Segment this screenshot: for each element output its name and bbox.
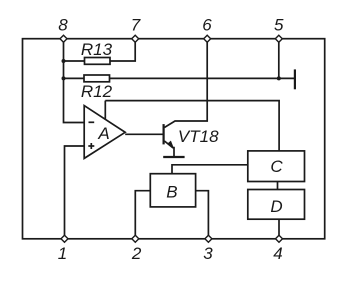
- svg-text:7: 7: [131, 16, 141, 35]
- terminal bar (capacitor connection): [294, 69, 296, 89]
- svg-text:D: D: [270, 197, 282, 216]
- op-amp A triangle: [84, 106, 125, 159]
- wire R13 right lead to pin 7: [110, 39, 135, 61]
- wire B top to block C: [172, 165, 248, 174]
- emitter arrowhead: [168, 141, 175, 150]
- svg-text:4: 4: [273, 244, 282, 263]
- wire R13 left lead: [64, 60, 85, 62]
- svg-text:VT18: VT18: [178, 127, 219, 146]
- wire D bottom to pin 4: [278, 219, 280, 239]
- pin 2 terminal: [132, 235, 139, 242]
- emitter terminal bar: [163, 156, 184, 158]
- pin 3 terminal: [205, 235, 212, 242]
- node junction pin5 / R12 line: [277, 76, 281, 80]
- pin terminals (open diamonds): [60, 35, 283, 242]
- svg-text:R13: R13: [81, 40, 113, 59]
- pin 7 terminal: [132, 35, 139, 42]
- svg-text:R12: R12: [81, 82, 113, 101]
- IC body outline: [23, 39, 325, 239]
- pin 8 terminal: [60, 35, 67, 42]
- resistor R12: [84, 75, 110, 82]
- svg-text:C: C: [270, 157, 283, 176]
- wire: pin 8 net vertical to inverting input: [64, 39, 85, 123]
- wire B right to pin 3: [196, 191, 209, 239]
- svg-text:B: B: [166, 182, 177, 201]
- svg-text:8: 8: [58, 16, 68, 35]
- svg-text:A: A: [97, 124, 109, 143]
- pin 1 terminal: [61, 235, 68, 242]
- transistor VT18 emitter path: [164, 141, 174, 156]
- wire R12 right lead to external terminal: [110, 77, 295, 79]
- transistor VT18 base bar: [163, 124, 165, 144]
- op-amp input polarity marks: [88, 122, 94, 149]
- wire op-amp top tap: [104, 101, 106, 120]
- wire op-amp output to VT18 base: [125, 133, 163, 135]
- svg-text:2: 2: [131, 244, 142, 263]
- block D: [248, 190, 305, 220]
- resistor R13: [85, 58, 111, 65]
- block C: [248, 151, 305, 182]
- pin 5 terminal: [275, 35, 282, 42]
- block B: [150, 174, 195, 207]
- svg-text:1: 1: [58, 244, 67, 263]
- pin 6 terminal: [204, 35, 211, 42]
- plus mark: [88, 145, 94, 147]
- wire R12 left lead: [64, 77, 85, 79]
- wire non-inverting input from pin 1: [65, 146, 85, 239]
- minus mark: [89, 121, 95, 123]
- wire B left to pin 2: [135, 191, 150, 239]
- wire pin 5 vertical: [278, 39, 280, 79]
- transistor VT18 collector path to pin 6: [164, 39, 207, 128]
- node junction R13 tap: [62, 59, 66, 63]
- pin 4 terminal: [276, 235, 283, 242]
- svg-text:5: 5: [274, 16, 284, 35]
- svg-text:6: 6: [202, 16, 212, 35]
- wire C to D connector: [277, 182, 279, 190]
- node junction R12 tap: [62, 76, 66, 80]
- wire: supply rail from op-amp to block C: [105, 101, 279, 151]
- svg-text:3: 3: [203, 244, 213, 263]
